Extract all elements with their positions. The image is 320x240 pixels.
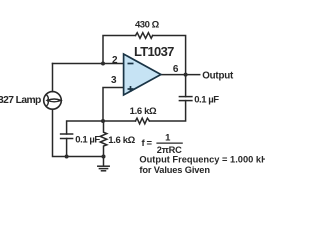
wire lamp top lead — [52, 64, 54, 92]
wire pin2 input — [53, 63, 124, 65]
svg-text:1.6 kΩ: 1.6 kΩ — [108, 135, 135, 146]
wire lamp bottom lead — [53, 109, 104, 156]
svg-text:0.1 µF: 0.1 µF — [194, 95, 219, 106]
capacitor 0.1µF (output) — [179, 97, 192, 101]
svg-text:327 Lamp: 327 Lamp — [0, 95, 41, 106]
svg-text:430 Ω: 430 Ω — [135, 20, 160, 31]
op-amp U1 LT1037 — [124, 54, 161, 95]
node cap bottom — [65, 155, 69, 159]
lamp 327 — [44, 92, 62, 110]
svg-text:LT1037: LT1037 — [134, 44, 174, 59]
node junction pin2/feedback — [101, 62, 105, 66]
wire horizontal RC branch right + drop from output cap — [149, 101, 185, 121]
svg-text:0.1 µF: 0.1 µF — [75, 134, 100, 145]
ground — [98, 157, 109, 171]
node junction pin3/RC — [101, 119, 105, 123]
wire top rail right + right drop to output node — [153, 36, 186, 75]
resistor 1.6kΩ vertical — [100, 121, 107, 157]
node ground junction — [102, 155, 106, 159]
wire bottom capacitor lower lead — [66, 139, 68, 157]
svg-text:2: 2 — [112, 55, 118, 66]
svg-text:for Values Given: for Values Given — [139, 165, 210, 175]
resistor 430Ω zigzag — [136, 33, 153, 39]
svg-text:1: 1 — [165, 132, 171, 143]
svg-text:f =: f = — [142, 138, 153, 149]
wire top feedback rail — [103, 36, 136, 64]
svg-text:Output: Output — [202, 70, 234, 81]
resistor 1.6kΩ horizontal zigzag — [136, 118, 150, 124]
wire output — [161, 74, 200, 76]
svg-text:Output Frequency = 1.000 kHz: Output Frequency = 1.000 kHz — [139, 155, 265, 165]
wire horizontal RC branch left — [103, 120, 136, 122]
wire left branch to bottom capacitor — [67, 121, 103, 134]
svg-text:3: 3 — [111, 75, 117, 86]
svg-text:6: 6 — [173, 64, 179, 75]
svg-text:1.6 kΩ: 1.6 kΩ — [130, 106, 157, 117]
wire pin3 input — [103, 88, 124, 122]
node output — [184, 73, 188, 77]
formula f = 1/2πRC — [142, 132, 183, 155]
capacitor 0.1µF (bottom-left) — [61, 134, 73, 139]
wire output cap top lead — [185, 75, 187, 97]
svg-text:2πRC: 2πRC — [157, 145, 182, 155]
